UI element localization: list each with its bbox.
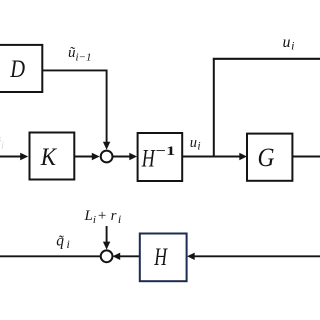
summing junction S2 [101, 250, 113, 262]
wire H^-1 to G [182, 156, 240, 158]
wire H to S2 [117, 255, 139, 257]
wire D to summing junction S1 (corner above S1) [42, 70, 106, 144]
feedback branch vertical wire [213, 59, 215, 157]
feedback top horizontal wire [213, 58, 320, 60]
summing junction S1 [101, 151, 113, 163]
svg-text:Li+ri: Li+ri [84, 208, 122, 226]
arrowhead into H^-1 [129, 153, 137, 160]
input wire into K [0, 156, 22, 158]
block H (blue bordered) [140, 234, 187, 282]
block D [0, 45, 42, 92]
arrowhead into K [20, 153, 28, 160]
bottom wire (left, toward q~) [0, 255, 101, 257]
svg-text:D: D [9, 56, 25, 83]
vertical arrow into S2 [106, 226, 108, 244]
arrowhead into S2 (pointing down) [103, 242, 110, 250]
wire S1 to H^-1 [113, 156, 131, 158]
wire G to right edge [292, 156, 320, 158]
arrowhead into S1 (pointing right) [92, 153, 100, 160]
svg-text:G: G [258, 142, 275, 172]
arrowhead into G [239, 153, 247, 160]
block K [30, 133, 75, 180]
arrowhead into S2 (pointing left) [113, 253, 121, 260]
wire right edge to H [194, 255, 320, 257]
svg-text:K: K [40, 144, 57, 171]
wire K to summing junction S1 [74, 156, 93, 158]
block H^-1 [138, 133, 183, 181]
arrowhead into H (pointing left) [187, 253, 195, 260]
arrowhead into S1 (pointing down) [103, 142, 110, 150]
block G [247, 134, 292, 181]
svg-text:H: H [141, 146, 156, 173]
svg-text:−1: −1 [156, 143, 176, 158]
svg-text:H: H [153, 244, 168, 271]
